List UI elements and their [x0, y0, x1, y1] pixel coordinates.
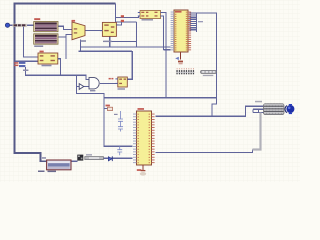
- latch U6 designator label: [40, 51, 44, 53]
- power symbol below U8: [175, 53, 183, 65]
- diode D3: [108, 156, 112, 161]
- and gate: [89, 78, 99, 89]
- wire mux select: [80, 40, 82, 52]
- ic U8 tall: [171, 10, 192, 52]
- wire topchip right pin2: [163, 16, 164, 50]
- lcd LCD1: [38, 157, 71, 172]
- cap C3: [117, 146, 122, 155]
- gate chip U7: [115, 77, 129, 90]
- connector J1: [264, 104, 285, 115]
- lcd LCD1 label: [38, 171, 45, 173]
- wire v132 to gate chip: [127, 51, 132, 79]
- wire h116 to connector: [156, 106, 265, 116]
- wire ic1 right bus entries: [196, 13, 198, 32]
- crystal X2 label: [106, 105, 110, 107]
- resistor R1: [85, 154, 104, 159]
- connector gray leg: [253, 113, 261, 150]
- wire mux out: [85, 30, 102, 32]
- wire xtal stub: [104, 108, 109, 110]
- mux U3: [72, 20, 87, 42]
- wire box2 to mux: [58, 35, 72, 38]
- latch left red labels: [14, 62, 18, 64]
- red net labels: [121, 15, 124, 17]
- led bar row: [176, 68, 194, 74]
- wire v115 leds: [115, 4, 117, 22]
- wire dot feed: [10, 24, 34, 26]
- wire not out: [84, 86, 89, 88]
- power symbol below U9: [137, 165, 146, 176]
- wire box1 to mux: [58, 26, 72, 29]
- wire ic1 right to v216: [192, 13, 216, 116]
- register U2 striped box: [34, 34, 58, 47]
- wire rst to ic2: [103, 157, 132, 159]
- wire h98: [104, 97, 216, 99]
- wire x14 to latch: [15, 60, 39, 62]
- wire topchip right pin1: [161, 12, 167, 97]
- gate chip U7 pin number labels: [109, 78, 111, 80]
- buffer U4 square chip: [100, 22, 118, 42]
- wire and out: [100, 82, 118, 84]
- wire conn stub box: [253, 109, 259, 112]
- wire sqchip pin up: [116, 22, 121, 25]
- respack RP1 label: [203, 75, 214, 76]
- wire h152: [156, 150, 253, 153]
- wire lcd to buzzer: [71, 160, 77, 162]
- not gate: [79, 84, 84, 90]
- latch U6: [38, 53, 60, 66]
- caps C1 C2: [118, 111, 123, 132]
- wire sqchip bottom pin: [109, 36, 111, 47]
- register U1 striped box: [34, 18, 58, 32]
- wire ic1 left pin b: [164, 49, 171, 51]
- wire latch btn down: [25, 67, 89, 79]
- wire box2 branch down: [65, 37, 67, 59]
- motor ball: [285, 104, 294, 114]
- wire left vertical lower: [15, 62, 47, 162]
- driver chip U5 top: [138, 11, 163, 21]
- wire h21: [116, 21, 137, 23]
- wire ic1 left pin a: [81, 46, 171, 48]
- wire conn stub4: [253, 112, 264, 114]
- wire not branch: [77, 75, 133, 146]
- respack RP1: [201, 70, 217, 73]
- wire conn stub2: [253, 108, 264, 110]
- net label right of U8: [198, 21, 203, 22]
- crystal X2: [108, 107, 113, 110]
- wire v136: [136, 22, 138, 47]
- latch buttons: [19, 62, 25, 64]
- wire top border: [15, 4, 116, 62]
- ic U9 mcu: [133, 108, 155, 165]
- wire h41: [103, 41, 136, 43]
- terminal dot: [5, 23, 9, 27]
- wire latch out down: [58, 59, 61, 76]
- terminal label row: [13, 24, 28, 27]
- wire h17: [116, 16, 141, 18]
- wire terminal2 to latch pin: [24, 27, 39, 58]
- buzzer icon: [77, 155, 83, 161]
- wire h51: [79, 50, 133, 52]
